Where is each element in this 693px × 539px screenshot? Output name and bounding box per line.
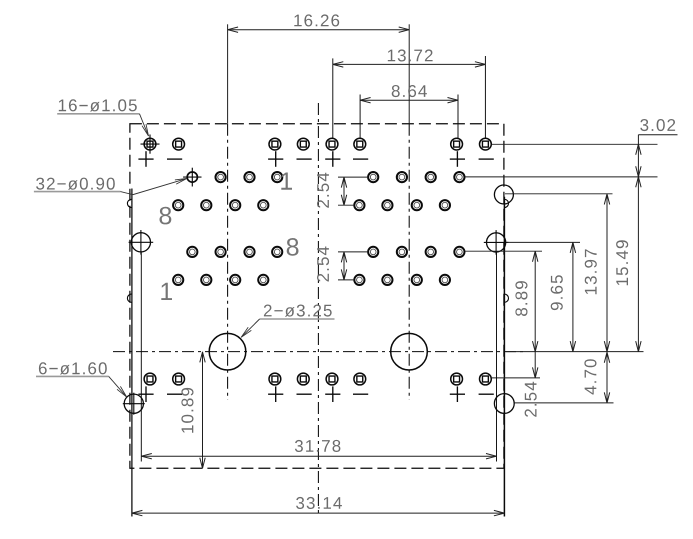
label 32-&#248;0.90 leader: [120, 178, 187, 194]
left edge bump lower: [127, 294, 131, 302]
extension line 8.64 right: [457, 95, 459, 139]
right connector centerline (vertical): [408, 24, 410, 400]
overall vertical centerline: [317, 103, 319, 517]
dimension 16.26 line: [228, 27, 410, 32]
signal hole left row3 pin2 (32-&#248;0.90): [216, 247, 226, 257]
minus mark under top hole 6: [353, 158, 368, 160]
dimension 2.54 rows1-2 text: [317, 173, 329, 208]
left edge bump upper: [127, 199, 131, 207]
edge hole top-right (6-&#248;1.60): [494, 185, 513, 204]
label 32-&#248;0.90 underline: [34, 191, 121, 193]
extension line 31.78 left: [140, 252, 142, 462]
signal hole right row2 pin1 (32-&#248;0.90): [354, 200, 364, 210]
plus mark under top hole 3: [268, 151, 283, 167]
pin label 1 row1: [281, 173, 292, 190]
square pad hole bottom row 4 (16-&#248;1.05): [297, 373, 309, 385]
connector body outline (dashed rectangle): [130, 124, 504, 469]
dimension 31.78 line: [141, 454, 496, 459]
plus mark under top hole 1: [138, 151, 153, 167]
signal hole right row4 pin1 (32-&#248;0.90): [354, 275, 364, 285]
label 16-&#248;1.05 text: [59, 99, 137, 111]
extension line row2: [338, 204, 355, 206]
signal hole left row3 pin1 (32-&#248;0.90): [187, 247, 197, 257]
plus mark under top hole 5: [325, 151, 340, 167]
extension line top-right hole: [505, 193, 613, 195]
signal hole right row3 pin1 (32-&#248;0.90): [368, 247, 378, 257]
signal hole right row4 pin3 (32-&#248;0.90): [412, 275, 422, 285]
dimension 15.49 line: [636, 177, 641, 352]
edge hole bottom-left (6-&#248;1.60): [123, 393, 145, 415]
signal hole right row2 pin4 (32-&#248;0.90): [440, 200, 450, 210]
dimension 16.26 text: [294, 14, 339, 26]
signal hole left row4 pin3 (32-&#248;0.90): [230, 275, 240, 285]
pin label 8 row3: [287, 238, 299, 256]
signal hole left row4 pin4 (32-&#248;0.90): [258, 275, 268, 285]
dimension 13.72 line: [333, 62, 486, 67]
plus mark under bottom hole 1: [138, 386, 153, 402]
label 16-&#248;1.05 underline: [57, 113, 139, 115]
extension line 8.64 left: [359, 95, 361, 139]
extension line 31.78 right: [496, 253, 498, 462]
signal hole left row4 pin1 (32-&#248;0.90): [173, 275, 183, 285]
extension line top row right: [492, 143, 658, 145]
signal hole left row1 pin1 (32-&#248;0.90): [183, 168, 201, 187]
edge hole mid-right (6-&#248;1.60): [484, 230, 509, 255]
signal hole left row3 pin3 (32-&#248;0.90): [244, 247, 254, 257]
mounting hole right (2-&#248;3.25): [391, 333, 428, 370]
edge hole mid-left (6-&#248;1.60): [129, 230, 154, 255]
plus mark under bottom hole 5: [325, 386, 340, 402]
signal hole left row4 pin2 (32-&#248;0.90): [201, 275, 211, 285]
edge hole bottom-right (6-&#248;1.60): [494, 394, 514, 414]
dimension 4.70 line: [604, 352, 609, 403]
signal hole right row1 pin4 (32-&#248;0.90): [454, 172, 464, 182]
square pad hole top row A2 (16-&#248;1.05): [173, 138, 185, 150]
extension line row3: [338, 251, 368, 253]
extension line 13.72 right: [484, 56, 486, 138]
pin label 1 row4: [161, 283, 172, 300]
minus mark under top hole 4: [297, 158, 312, 160]
square pad hole top row A1 (16-&#248;1.05): [141, 135, 160, 154]
square pad hole top row A6 (16-&#248;1.05): [354, 138, 366, 150]
label 6-&#248;1.60 text: [39, 362, 107, 374]
square pad hole bottom row 8 (16-&#248;1.05): [480, 373, 492, 385]
mounting hole left (2-&#248;3.25): [209, 333, 246, 370]
square pad hole top row A7 (16-&#248;1.05): [451, 138, 463, 150]
square pad hole top row A8 (16-&#248;1.05): [480, 138, 492, 150]
dimension 33.14 text: [296, 497, 342, 509]
square pad hole bottom row 7 (16-&#248;1.05): [451, 373, 463, 385]
plus mark under top hole 7: [450, 151, 465, 167]
minus mark under top hole 2: [167, 158, 182, 160]
signal hole right row3 pin4 (32-&#248;0.90): [454, 247, 464, 257]
left connector centerline (vertical): [227, 24, 229, 400]
square pad hole bottom row 1 (16-&#248;1.05): [144, 373, 156, 385]
plus mark under bottom hole 3: [268, 386, 283, 402]
signal hole right row1 pin1 (32-&#248;0.90): [368, 172, 378, 182]
minus mark under bottom hole 6: [353, 393, 368, 395]
signal hole left row1 pin4 (32-&#248;0.90): [272, 172, 282, 182]
dimension 2.54 rows3-4 text: [317, 247, 329, 282]
dimension 9.65 text: [551, 275, 563, 310]
square pad hole bottom row 2 (16-&#248;1.05): [173, 373, 185, 385]
dimension 8.64 line: [360, 98, 458, 103]
dimension 8.89 text: [515, 281, 527, 316]
extension line row4: [338, 279, 355, 281]
dimension 2.54 rows1-2 line: [341, 177, 346, 205]
right edge bump lower: [504, 294, 508, 302]
square pad hole top row A3 (16-&#248;1.05): [269, 138, 281, 150]
right edge bump upper: [504, 199, 508, 207]
signal hole left row3 pin4 (32-&#248;0.90): [272, 247, 282, 257]
dimension 3.02 text: [640, 119, 675, 131]
minus mark under bottom hole 2: [167, 393, 182, 395]
extension line row3 right: [465, 250, 542, 252]
dimension 15.49 text: [616, 240, 628, 285]
dimension 31.78 text: [295, 440, 341, 452]
signal hole right row2 pin2 (32-&#248;0.90): [382, 200, 392, 210]
dimension 13.72 text: [388, 49, 433, 61]
label 2-&#248;3.25 underline: [260, 318, 335, 320]
label 32-&#248;0.90 text: [36, 178, 115, 190]
label 2-&#248;3.25 leader: [241, 319, 259, 337]
pin label 8 row2: [160, 207, 172, 225]
extension line bottom-right hole: [515, 402, 614, 404]
minus mark under bottom hole 8: [479, 393, 494, 395]
signal hole left row2 pin1 (32-&#248;0.90): [173, 200, 183, 210]
dimension 33.14 line: [132, 510, 505, 515]
signal hole right row4 pin2 (32-&#248;0.90): [382, 275, 392, 285]
minus mark under bottom hole 4: [297, 393, 312, 395]
dimension 2.54 rows3-4 line: [341, 252, 346, 280]
signal hole right row1 pin2 (32-&#248;0.90): [397, 172, 407, 182]
minus mark under top hole 8: [479, 158, 494, 160]
dimension 3.02 line: [636, 135, 641, 177]
dimension 10.89 line: [200, 352, 205, 468]
dimension 4.70 text: [584, 359, 596, 394]
extension line mid-right hole: [507, 241, 581, 243]
signal hole right row2 pin3 (32-&#248;0.90): [412, 200, 422, 210]
signal hole left row2 pin4 (32-&#248;0.90): [258, 200, 268, 210]
signal hole right row3 pin2 (32-&#248;0.90): [397, 247, 407, 257]
extension line 13.72 left: [332, 58, 334, 138]
right solid edge / extension line: [503, 197, 505, 517]
dimension 13.97 text: [585, 249, 597, 294]
horizontal centerline through mounting holes: [113, 351, 644, 353]
dimension 2.54 right line: [533, 352, 538, 378]
dimension 8.64 text: [392, 85, 427, 97]
dimension 9.65 line: [570, 242, 575, 351]
square pad hole top row A4 (16-&#248;1.05): [297, 138, 309, 150]
signal hole left row1 pin3 (32-&#248;0.90): [244, 172, 254, 182]
extension line row1: [338, 176, 368, 178]
dimension 2.54 right text: [525, 382, 537, 417]
signal hole left row2 pin2 (32-&#248;0.90): [201, 200, 211, 210]
square pad hole top row A5 (16-&#248;1.05): [326, 138, 338, 150]
square pad hole bottom row 5 (16-&#248;1.05): [326, 373, 338, 385]
signal hole left row2 pin3 (32-&#248;0.90): [230, 200, 240, 210]
square pad hole bottom row 3 (16-&#248;1.05): [269, 373, 281, 385]
label 16-&#248;1.05 leader: [140, 114, 149, 136]
label 2-&#248;3.25 text: [264, 305, 332, 317]
label 6-&#248;1.60 underline: [36, 375, 109, 377]
dimension 8.89 line: [533, 251, 538, 351]
signal hole right row3 pin3 (32-&#248;0.90): [426, 247, 436, 257]
plus mark under bottom hole 7: [450, 386, 465, 402]
extension line row1 right: [465, 176, 657, 178]
signal hole right row4 pin4 (32-&#248;0.90): [440, 275, 450, 285]
left solid edge / extension line: [131, 189, 133, 517]
extension line bottom row right: [492, 377, 540, 379]
dimension 10.89 text: [181, 388, 193, 433]
square pad hole bottom row 6 (16-&#248;1.05): [354, 373, 366, 385]
dimension 3.02 underline: [638, 134, 677, 136]
signal hole left row1 pin2 (32-&#248;0.90): [216, 172, 226, 182]
label 6-&#248;1.60 leader: [109, 376, 127, 397]
signal hole right row1 pin3 (32-&#248;0.90): [426, 172, 436, 182]
dimension 13.97 line: [604, 194, 609, 352]
